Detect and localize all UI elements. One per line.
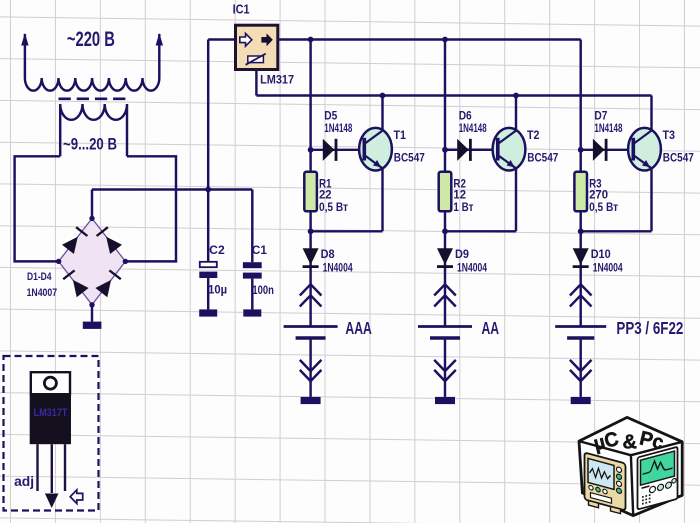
svg-text:D7: D7	[594, 111, 607, 123]
wire bottom rail R3	[581, 230, 652, 232]
bridge diode top-left	[62, 237, 78, 254]
svg-text:1N4007: 1N4007	[27, 287, 57, 299]
svg-text:270: 270	[589, 190, 608, 202]
LM317T leg 1	[36, 444, 38, 491]
svg-text:22: 22	[319, 190, 332, 202]
svg-text:T3: T3	[663, 130, 676, 142]
svg-text:0,5 Вт: 0,5 Вт	[319, 202, 348, 214]
transistor T1 BC547	[359, 128, 392, 171]
wire bridge top to DC node	[91, 190, 93, 219]
adj pointer arrow (open, left)	[70, 490, 83, 504]
IC1 output arrow (filled)	[261, 33, 272, 46]
wire rail B (adj)	[256, 94, 651, 96]
diode D10	[573, 248, 589, 264]
IC1 input arrow (open)	[240, 33, 252, 46]
ground (C1)	[243, 309, 261, 316]
node rail A junction R2	[442, 37, 448, 43]
battery PP3 / 6F22	[555, 325, 606, 328]
resistor R2	[439, 172, 452, 212]
wire channel R3 vertical	[579, 40, 581, 232]
diode D5	[323, 139, 335, 161]
capacitor C2	[200, 262, 217, 267]
dashed inset box	[4, 356, 99, 511]
bridge node left	[56, 259, 61, 264]
svg-text:LM317: LM317	[260, 72, 294, 86]
bridge diode top-right	[106, 237, 122, 254]
node bottom junction R1	[308, 228, 314, 234]
connector contacts (up) PP3 / 6F22	[570, 284, 592, 306]
wire base lead T3	[581, 149, 634, 151]
adj pin arrow (down)	[45, 494, 59, 509]
bridge rectifier D1-D4 diamond	[59, 218, 126, 304]
svg-text:1 Вт: 1 Вт	[453, 202, 473, 214]
svg-text:D6: D6	[459, 111, 472, 123]
node bottom junction R2	[442, 228, 448, 234]
node diode junction D6	[442, 147, 448, 153]
svg-text:IC1: IC1	[233, 3, 250, 17]
ground (AA)	[435, 397, 455, 404]
wire to battery AAA	[309, 231, 311, 326]
LM317T package tab	[31, 372, 70, 394]
resistor R3	[574, 172, 587, 212]
wire T2 collector/emitter vertical	[515, 96, 517, 232]
wire channel R2 vertical	[444, 40, 446, 232]
bridge diode bottom-left	[73, 280, 89, 297]
wire bottom rail R1	[311, 230, 383, 232]
svg-text:1N4148: 1N4148	[594, 123, 622, 135]
transistor T2 BC547	[493, 128, 526, 171]
svg-text:AAA: AAA	[345, 318, 372, 338]
diode D9	[437, 248, 453, 264]
connector contacts (up) AA	[434, 284, 456, 306]
ground (AAA)	[301, 397, 321, 404]
wire C1 drop	[251, 190, 253, 263]
wire C2 to ground	[207, 278, 209, 309]
transformer secondary winding	[60, 104, 127, 156]
diode D8	[303, 248, 319, 264]
svg-text:BC547: BC547	[663, 150, 694, 164]
bridge diode bottom-right	[95, 280, 111, 297]
IC1 adjust icon	[248, 56, 264, 63]
wire secondary right to bridge	[126, 156, 176, 261]
ground (C2)	[199, 309, 217, 316]
wire adj pin drop	[255, 70, 257, 96]
svg-text:~9...20 В: ~9...20 В	[63, 136, 117, 154]
transformer core	[59, 98, 128, 101]
svg-text:LM317T: LM317T	[34, 407, 68, 419]
svg-text:12: 12	[453, 190, 466, 202]
wire secondary left to bridge	[15, 156, 61, 261]
wire DC+ horizontal	[92, 188, 252, 190]
connector contacts (down) AA	[434, 360, 456, 381]
LM317T package body	[30, 394, 71, 444]
logo cube inner edges	[579, 441, 682, 515]
svg-text:T1: T1	[394, 130, 407, 142]
node diode junction D7	[578, 147, 584, 153]
wire to battery PP3 / 6F22	[579, 231, 581, 326]
svg-text:C2: C2	[209, 243, 225, 257]
node rail A junction R1	[308, 37, 314, 43]
diode D6	[457, 139, 469, 161]
node diode junction D5	[308, 147, 314, 153]
bridge node right	[123, 259, 128, 264]
battery AAA	[284, 325, 338, 328]
LM317T leg 3	[64, 444, 66, 491]
svg-text:1N4004: 1N4004	[593, 263, 623, 275]
svg-text:&: &	[623, 432, 637, 454]
LM317T leg 2	[51, 444, 53, 493]
ground (PP3 / 6F22)	[571, 397, 591, 404]
svg-text:1N4004: 1N4004	[323, 263, 353, 275]
bridge node top	[89, 216, 94, 221]
wire bridge bottom to ground	[91, 305, 93, 322]
svg-text:BC547: BC547	[527, 150, 558, 164]
wire C1 to ground	[251, 279, 253, 310]
node rail B junction T2	[513, 93, 519, 99]
svg-text:PP3 / 6F22: PP3 / 6F22	[616, 318, 683, 338]
svg-text:D1-D4: D1-D4	[27, 271, 52, 283]
wire bottom rail R2	[445, 230, 516, 232]
wire T3 collector/emitter vertical	[650, 96, 652, 232]
logo left oscilloscope	[585, 453, 626, 515]
mains arrow right	[156, 33, 163, 46]
svg-text:1N4148: 1N4148	[459, 123, 487, 135]
wire channel R1 vertical	[309, 40, 311, 232]
transistor T3 BC547	[628, 128, 661, 171]
op-amp/regulator IC1 LM317 box	[236, 25, 278, 69]
bridge node bottom	[89, 302, 94, 307]
svg-text:D9: D9	[455, 249, 469, 261]
svg-text:C1: C1	[252, 243, 267, 257]
svg-text:D8: D8	[321, 249, 336, 261]
connector contacts (down) PP3 / 6F22	[570, 360, 592, 381]
svg-text:100n: 100n	[252, 283, 274, 297]
wire to LM317 input pin	[208, 38, 235, 40]
svg-text:D10: D10	[591, 249, 611, 261]
wire base lead T1	[311, 149, 365, 151]
ground (bridge)	[83, 322, 102, 329]
node rail B junction T1	[380, 93, 386, 99]
wire base lead T2	[445, 149, 498, 151]
battery AA	[418, 325, 472, 328]
node DC junction	[205, 187, 211, 193]
svg-text:~220 В: ~220 В	[67, 28, 115, 51]
svg-text:0,5 Вт: 0,5 Вт	[589, 202, 618, 214]
logo cube outline	[579, 417, 682, 515]
svg-text:10µ: 10µ	[208, 283, 227, 297]
svg-text:1N4004: 1N4004	[457, 263, 487, 275]
wire LM317 input drop / C2 branch	[207, 40, 209, 262]
node bottom junction R3	[578, 228, 584, 234]
transformer primary winding	[25, 34, 159, 91]
svg-text:1N4148: 1N4148	[324, 123, 352, 135]
logo right oscilloscope	[638, 447, 678, 510]
capacitor C1	[243, 262, 262, 268]
diode D7	[593, 139, 605, 161]
mains arrow left	[21, 33, 28, 46]
wire to battery AA	[444, 231, 446, 326]
connector contacts (down) AAA	[300, 360, 322, 381]
resistor R1	[304, 172, 317, 212]
svg-text:D5: D5	[324, 111, 338, 123]
connector contacts (up) AAA	[300, 284, 322, 306]
svg-text:AA: AA	[482, 318, 500, 338]
LM317T package hole	[44, 377, 56, 389]
svg-text:T2: T2	[527, 130, 540, 142]
svg-text:adj: adj	[14, 473, 34, 489]
wire T1 collector/emitter vertical	[381, 96, 383, 232]
wire rail A (LM317 out)	[278, 38, 581, 40]
svg-text:BC547: BC547	[394, 150, 425, 164]
